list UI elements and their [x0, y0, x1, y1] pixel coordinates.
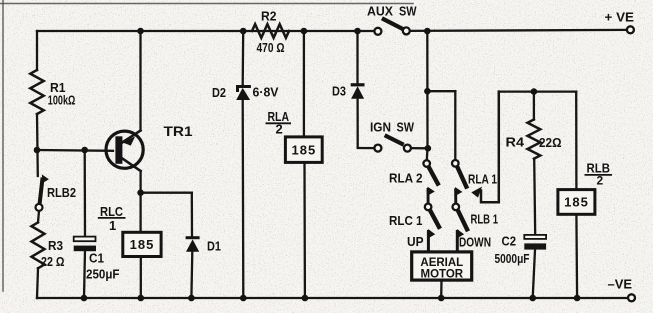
zener diode D2	[236, 85, 251, 100]
top border scan line	[0, 3, 413, 5]
svg-text:R4: R4	[506, 135, 525, 150]
relay coil box RLC 185	[123, 232, 161, 256]
svg-text:C2: C2	[502, 234, 517, 249]
wire RLB coil upper	[575, 92, 578, 190]
svg-text:22Ω: 22Ω	[539, 135, 562, 150]
resistor R1	[30, 70, 43, 114]
svg-text:AERIAL: AERIAL	[420, 257, 463, 269]
junction dots bottom rail	[81, 295, 581, 302]
wire R4 upper	[533, 92, 535, 120]
wire RLA coil lower	[303, 162, 306, 298]
svg-text:2: 2	[276, 122, 283, 137]
svg-text:1: 1	[109, 218, 116, 233]
switch AUX SW	[374, 18, 409, 35]
svg-text:RLB2: RLB2	[47, 185, 76, 200]
switch IGN SW	[374, 135, 411, 151]
junction dots middle	[34, 88, 538, 196]
svg-text:SW: SW	[397, 120, 415, 135]
svg-text:D3: D3	[332, 84, 346, 99]
wire RLB coil lower	[575, 214, 578, 298]
wire branch to RLA1 vertical	[454, 91, 456, 160]
svg-text:AUX: AUX	[367, 4, 393, 19]
transistor TR1	[106, 131, 143, 168]
svg-text:R3: R3	[48, 238, 63, 253]
wire R3 to bottom rail	[37, 268, 38, 298]
relay contact RLB1	[453, 187, 469, 231]
diode D3	[351, 83, 365, 99]
wire TR1 collector diagonal	[121, 157, 141, 171]
svg-text:RLB 1: RLB 1	[471, 212, 499, 227]
svg-text:RLC: RLC	[100, 204, 124, 219]
junction dots top rail	[137, 28, 430, 35]
svg-text:R2: R2	[261, 9, 277, 24]
wire aerial motor to bottom rail	[440, 280, 443, 298]
svg-text:RLA 2: RLA 2	[389, 171, 423, 186]
wire R3 below RLB2	[38, 211, 39, 223]
relay coil box RLB 185	[558, 190, 595, 215]
resistor R2	[252, 24, 289, 38]
diode D1	[186, 236, 200, 252]
switch RLB2	[36, 174, 49, 211]
svg-text:185: 185	[564, 195, 589, 210]
svg-text:TR1: TR1	[164, 123, 193, 139]
svg-text:IGN: IGN	[370, 120, 391, 135]
relay coil box RLA 185	[285, 137, 322, 163]
wire R1 to RLB2	[36, 114, 39, 176]
wire TR1 emitter diagonal	[122, 131, 141, 143]
relay contact RLA2	[423, 160, 438, 185]
svg-text:D1: D1	[207, 239, 221, 254]
wire bottom rail	[37, 297, 628, 299]
wire R4 loop top	[499, 90, 576, 92]
terminal -VE	[628, 294, 635, 301]
wire D2 upper	[242, 31, 245, 85]
label RLB fraction	[585, 161, 613, 188]
wire C1 branch upper	[84, 150, 87, 237]
svg-text:–VE: –VE	[608, 277, 633, 292]
svg-text:5000μF: 5000μF	[495, 251, 530, 266]
capacitor C2	[524, 235, 546, 250]
svg-text:22 Ω: 22 Ω	[41, 254, 65, 269]
svg-text:250μF: 250μF	[86, 267, 120, 282]
wire C1 branch lower	[84, 250, 85, 298]
wire TR1 emitter vertical	[139, 31, 141, 131]
svg-text:6·8V: 6·8V	[253, 85, 279, 100]
wire chain junction to RLA2 circle	[426, 148, 429, 160]
wire R4 to C2	[534, 159, 535, 235]
arrow UP contact	[428, 229, 435, 252]
svg-text:100kΩ: 100kΩ	[48, 93, 76, 108]
resistor R4	[528, 120, 541, 159]
relay contact RLA1	[452, 160, 482, 198]
svg-text:SW: SW	[399, 4, 417, 19]
svg-text:C1: C1	[89, 251, 104, 266]
svg-text:RLC 1: RLC 1	[389, 213, 423, 228]
svg-text:MOTOR: MOTOR	[421, 269, 464, 281]
wire RLC coil lower	[140, 257, 142, 299]
left border scan line	[2, 0, 4, 291]
wire D1 upper	[191, 193, 193, 237]
wire C2 to bottom rail	[533, 250, 535, 298]
wire base of TR1	[37, 149, 113, 152]
wire collector node to D1 horizontal	[141, 192, 192, 194]
svg-text:DOWN: DOWN	[459, 235, 491, 250]
wire RLA coil upper	[303, 31, 305, 137]
wire IGN SW to chain	[411, 147, 425, 149]
wire top rail left segment	[37, 30, 375, 32]
svg-text:+ VE: + VE	[605, 10, 635, 25]
svg-text:D2: D2	[212, 85, 226, 100]
wire D3 to IGN SW	[358, 147, 375, 149]
wire D3 lower	[356, 99, 358, 147]
wire RLA1 contact to R4 loop	[481, 92, 499, 203]
wire D3 upper	[356, 31, 358, 84]
arrow DOWN contact	[457, 229, 464, 252]
resistor R3	[32, 222, 45, 268]
wire top rail right segment	[410, 30, 627, 31]
aerial motor box	[412, 252, 472, 281]
wire TR1 collector vertical	[139, 171, 141, 193]
svg-text:RLA 1: RLA 1	[468, 172, 497, 187]
wire D1 lower	[190, 252, 193, 298]
wire left vertical upper	[36, 31, 38, 70]
capacitor C1	[74, 237, 96, 252]
svg-text:185: 185	[130, 237, 155, 252]
label RLA fraction	[266, 109, 292, 137]
wire chain vertical from AUX node	[426, 31, 429, 148]
terminal +VE	[627, 26, 634, 33]
svg-text:185: 185	[292, 142, 317, 157]
label RLC fraction	[98, 204, 126, 233]
wire D2 lower to bottom rail	[242, 100, 245, 298]
wire branch to RLA1 horizontal	[427, 90, 455, 92]
svg-text:UP: UP	[407, 234, 424, 249]
wire RLC coil upper	[139, 193, 141, 233]
relay contact RLC1	[425, 187, 440, 229]
svg-text:470 Ω: 470 Ω	[257, 40, 285, 55]
svg-text:2: 2	[597, 174, 604, 188]
